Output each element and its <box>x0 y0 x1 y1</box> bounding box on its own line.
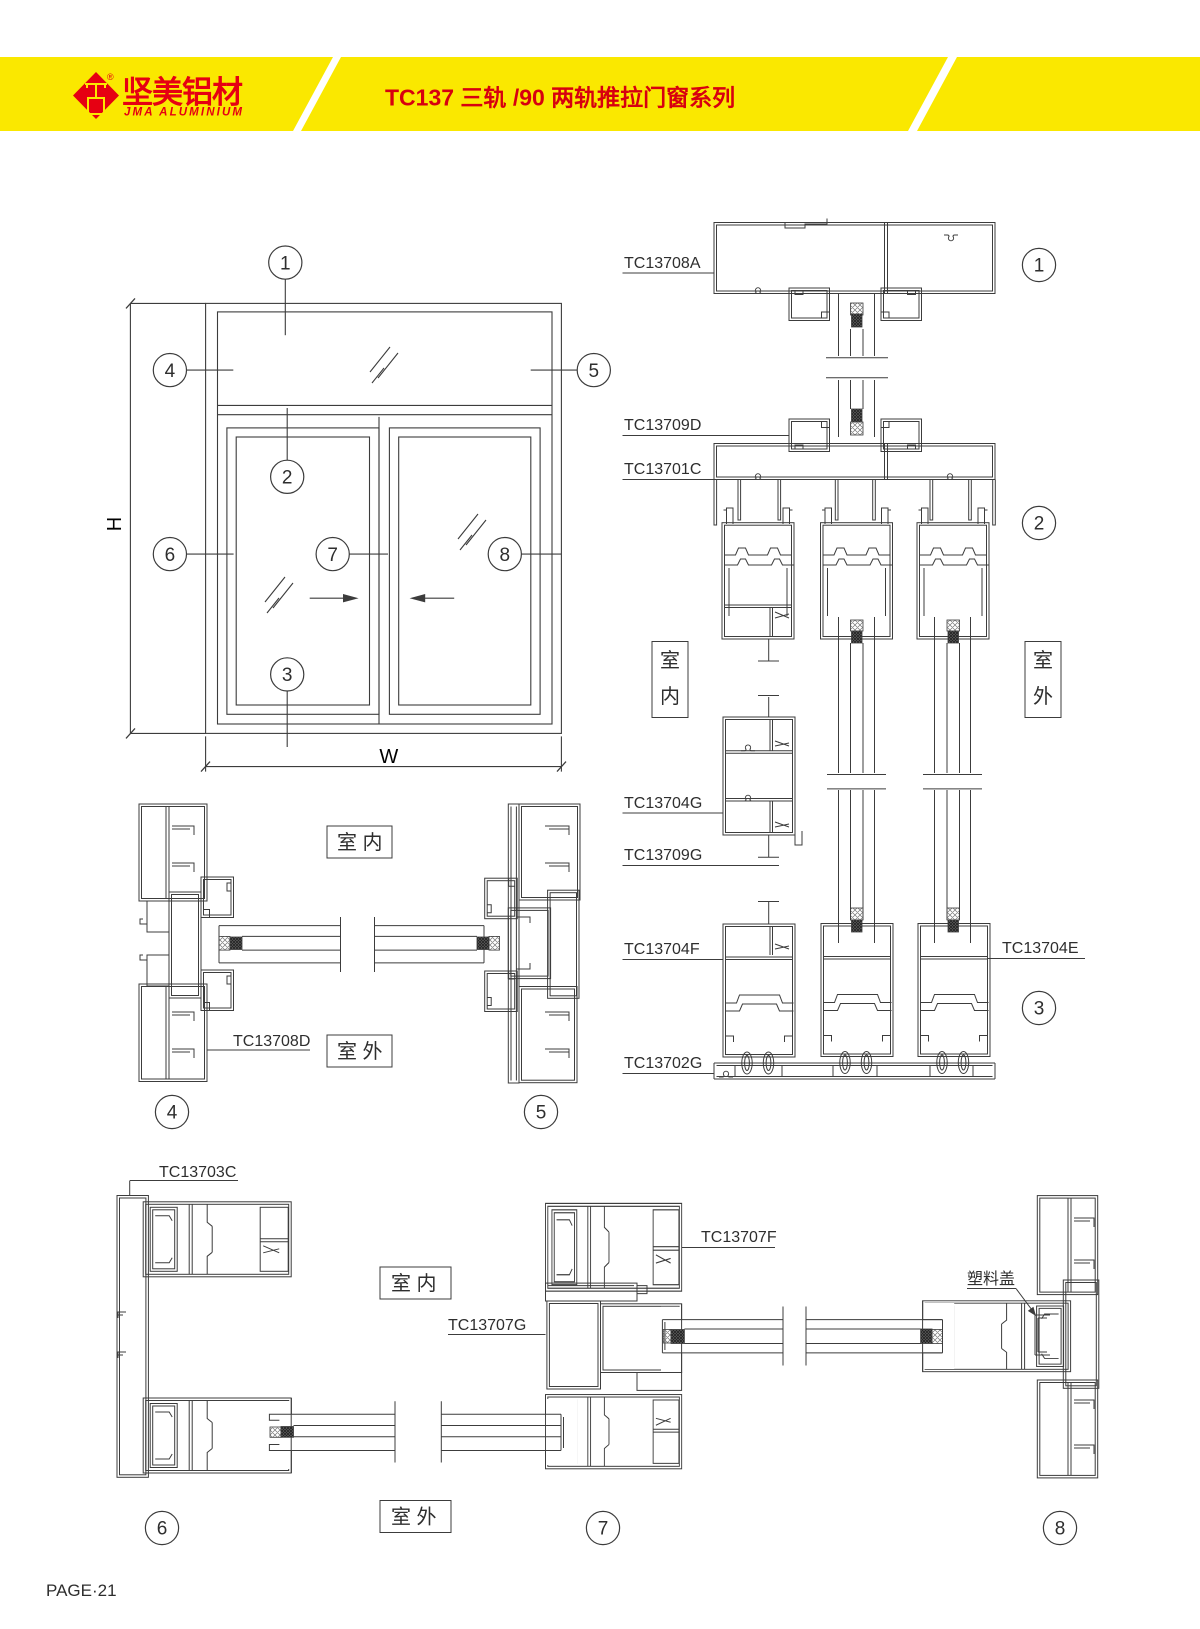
clamp upper left <box>789 288 830 321</box>
svg-text:1: 1 <box>1034 256 1045 277</box>
svg-text:内: 内 <box>660 685 680 708</box>
right sash inner <box>399 437 531 705</box>
jamb 5 mid box <box>548 890 579 998</box>
interlock 7 lower strip <box>637 1373 682 1391</box>
svg-text:5: 5 <box>536 1103 547 1124</box>
jamb 5 bottom box <box>519 987 577 1083</box>
svg-text:7: 7 <box>327 545 338 566</box>
sash8 pocket edges <box>923 1301 943 1372</box>
jamb 8 bottom box <box>1037 1380 1097 1478</box>
leader circle5 <box>531 369 577 371</box>
left sash outer <box>227 428 379 714</box>
tick below left sash <box>758 639 779 661</box>
glass band 6-7 panes <box>294 1426 562 1437</box>
W dimension line <box>206 736 562 771</box>
exterior box 室外 mid <box>327 1035 392 1067</box>
interlock 7 upper strip <box>546 1283 638 1301</box>
omega notch bottom rail <box>719 1071 733 1077</box>
window outer frame <box>206 303 562 733</box>
glass run horizontal <box>219 926 484 963</box>
sash assembly 7 bottom <box>546 1395 682 1469</box>
transom divider <box>218 405 553 414</box>
interlock7 pocket edges <box>662 1304 681 1373</box>
header white slash left <box>293 57 341 131</box>
glass band 6-7 channel <box>291 1414 545 1450</box>
svg-text:TC13708D: TC13708D <box>233 1033 310 1050</box>
interior box 室内 <box>652 642 688 718</box>
leader circle2 <box>286 408 288 460</box>
glass hatch upper pane <box>370 347 398 383</box>
svg-text:3: 3 <box>282 665 293 686</box>
right glass break <box>923 775 982 789</box>
svg-text:TC13708A: TC13708A <box>624 255 701 272</box>
window inner frame <box>218 312 553 724</box>
interlock 7 left box <box>547 1301 601 1389</box>
sash assembly 6 bottom <box>143 1398 291 1473</box>
interior/exterior texts mid section <box>337 831 383 1063</box>
head track fins <box>714 480 995 526</box>
label TC13703C underline and leader <box>130 1181 238 1196</box>
svg-text:5: 5 <box>589 361 600 382</box>
jamb 5 top box <box>519 804 580 900</box>
svg-text:8: 8 <box>1055 1519 1066 1540</box>
interior box 室内 bottom <box>380 1267 451 1299</box>
bottom rail TC13702G <box>714 1063 995 1079</box>
sash bottom right <box>918 924 990 1074</box>
jamb 8 mid box <box>1063 1280 1099 1388</box>
svg-text:4: 4 <box>167 1103 178 1124</box>
sash assembly 6 top <box>143 1202 291 1277</box>
svg-text:TC13703C: TC13703C <box>159 1164 236 1181</box>
svg-text:1: 1 <box>280 253 291 274</box>
middle long glass run <box>839 617 875 773</box>
interlock 7 right box <box>601 1304 682 1373</box>
svg-text:室 外: 室 外 <box>391 1506 437 1529</box>
glass hatch left sash <box>265 577 293 613</box>
svg-text:室 外: 室 外 <box>337 1040 383 1063</box>
jamb 6 mid fins <box>118 1312 126 1358</box>
sash assembly 8 <box>923 1301 1071 1372</box>
sash bottom left <box>723 924 795 1074</box>
balloons right section <box>1022 248 1055 1024</box>
label underlines <box>623 273 1086 1074</box>
right long glass run <box>935 617 971 773</box>
jamb left small boxes <box>147 901 169 932</box>
jamb left hooks <box>140 919 147 960</box>
label TC13708D underline <box>207 1049 310 1051</box>
label TC13707F underline <box>682 1247 775 1249</box>
upper glass run <box>839 294 875 357</box>
glass band 6-7 breaks <box>395 1401 441 1462</box>
svg-text:室: 室 <box>660 649 680 672</box>
right sash outer <box>389 428 540 714</box>
svg-text:塑料盖: 塑料盖 <box>967 1270 1015 1288</box>
sash6 pocket edges <box>269 1398 291 1473</box>
sash top middle <box>821 508 893 639</box>
svg-text:TC13707F: TC13707F <box>701 1229 777 1246</box>
svg-text:坚美铝材: 坚美铝材 <box>122 75 243 110</box>
jamb 6 tube <box>117 1196 148 1478</box>
clamp 5 top <box>485 878 518 919</box>
svg-text:®: ® <box>107 72 114 82</box>
svg-text:TC13707G: TC13707G <box>448 1317 526 1334</box>
interior/exterior texts right section <box>660 649 1053 708</box>
glass hatch right sash <box>458 514 486 550</box>
exterior box 室外 bottom <box>380 1501 451 1533</box>
jamb TC13708D bottom box <box>139 984 207 1082</box>
clamp 4 bottom <box>201 970 234 1011</box>
svg-text:外: 外 <box>1033 685 1053 708</box>
svg-text:室: 室 <box>1033 649 1053 672</box>
label 塑料盖 underline and arrow <box>967 1289 1035 1315</box>
svg-text:2: 2 <box>282 468 293 489</box>
meeting stile line <box>378 417 380 724</box>
glazing blocks right section <box>851 303 960 932</box>
leader circle6 <box>187 553 234 555</box>
glazing blocks mid section <box>219 936 500 950</box>
svg-text:室 内: 室 内 <box>337 831 383 854</box>
svg-text:6: 6 <box>165 545 176 566</box>
glass break upper <box>826 358 888 378</box>
tick below interlock <box>758 831 802 857</box>
sash top left <box>722 508 794 639</box>
svg-text:8: 8 <box>500 545 511 566</box>
glass band 7-8 channel <box>662 1320 942 1353</box>
interior box 室内 mid <box>327 826 392 858</box>
slide arrow left <box>420 597 454 599</box>
balloons 4 and 5 <box>155 1095 557 1128</box>
omega notches interlock <box>741 745 755 751</box>
glazing blocks bottom sections <box>270 1329 943 1437</box>
svg-text:W: W <box>379 746 398 768</box>
balloons 6 7 8 <box>145 1511 1076 1544</box>
glass pocket patch sash6 bottom <box>256 1401 291 1469</box>
interlock TC13704G <box>723 717 795 835</box>
rail roller wells <box>735 1066 782 1077</box>
omega notches TC13701C <box>751 474 765 480</box>
label TC13707G underline <box>448 1334 546 1336</box>
jamb TC13708D top box <box>139 804 207 901</box>
svg-text:TC13702G: TC13702G <box>624 1055 702 1072</box>
interior/exterior texts bottom <box>391 1272 437 1529</box>
slide arrow right <box>310 597 344 599</box>
svg-text:TC13701C: TC13701C <box>624 461 701 478</box>
svg-text:7: 7 <box>598 1519 609 1540</box>
svg-text:TC137 三轨 /90 两轨推拉门窗系列: TC137 三轨 /90 两轨推拉门窗系列 <box>385 85 735 111</box>
clamp 5 bottom <box>485 971 518 1012</box>
leader circle7 <box>349 553 388 555</box>
header white slash right <box>908 57 957 131</box>
part labels right section <box>624 255 1079 1072</box>
jamb central tube <box>169 892 201 998</box>
header yellow band <box>0 57 1200 131</box>
svg-text:JMA ALUMINIUM: JMA ALUMINIUM <box>124 107 242 119</box>
glass pocket patch interlock7 <box>661 1307 681 1371</box>
plastic cap bracket <box>1035 1315 1050 1355</box>
sash bottom middle <box>821 924 893 1074</box>
clamp lower right <box>881 419 922 452</box>
logo diamond <box>73 72 119 119</box>
svg-text:H: H <box>104 517 126 531</box>
glass band 7-8 breaks <box>783 1307 806 1366</box>
glass pocket patch sash7 bottom <box>546 1399 577 1465</box>
clamp upper right <box>881 288 922 321</box>
exterior box 室外 <box>1025 642 1061 718</box>
svg-text:TC13709G: TC13709G <box>624 847 702 864</box>
left sash inner <box>236 437 369 705</box>
logo icon inside diamond <box>85 84 107 114</box>
arrow heads elevation <box>343 594 359 602</box>
glass pocket patch sash8 <box>924 1303 955 1369</box>
jamb 5 interlock <box>508 908 550 979</box>
svg-text:TC13704G: TC13704G <box>624 795 702 812</box>
clamp 4 top <box>201 877 234 918</box>
sash top right <box>917 508 989 639</box>
svg-text:室 内: 室 内 <box>391 1272 437 1295</box>
middle glass break <box>827 775 886 789</box>
sash7 bottom pocket edges <box>546 1395 564 1469</box>
tick above bottom-left sash <box>758 902 779 925</box>
jamb 5 spine <box>508 804 519 1083</box>
tick above interlock <box>758 696 779 718</box>
glass break marks <box>341 917 375 972</box>
svg-text:2: 2 <box>1034 514 1045 535</box>
left bottom sash hook <box>770 927 789 956</box>
balloon 1 <box>153 246 610 691</box>
leader circle4 <box>187 369 234 371</box>
arrowhead plastic cap <box>1028 1307 1036 1316</box>
svg-text:PAGE·21: PAGE·21 <box>46 1581 117 1600</box>
glass band 7-8 panes <box>684 1329 920 1344</box>
profile TC13708A head top <box>714 223 995 294</box>
svg-text:TC13709D: TC13709D <box>624 417 701 434</box>
leader circle8 <box>522 553 562 555</box>
svg-text:TC13704F: TC13704F <box>624 941 700 958</box>
sash assembly 7 top <box>546 1203 682 1291</box>
leader circle3 <box>286 691 288 747</box>
svg-text:TC13704E: TC13704E <box>1002 940 1079 957</box>
clamp lower left TC13709D <box>789 419 830 452</box>
jamb 8 top box <box>1037 1196 1097 1295</box>
svg-text:4: 4 <box>165 361 176 382</box>
svg-text:6: 6 <box>157 1519 168 1540</box>
part labels bottom <box>159 1164 1015 1334</box>
leader circle1 <box>284 279 286 335</box>
omega notches TC13708A <box>751 288 765 294</box>
svg-text:3: 3 <box>1034 999 1045 1020</box>
H dimension line <box>130 303 205 733</box>
profile TC13701C head <box>714 444 995 480</box>
left sash bottom box <box>725 605 792 637</box>
